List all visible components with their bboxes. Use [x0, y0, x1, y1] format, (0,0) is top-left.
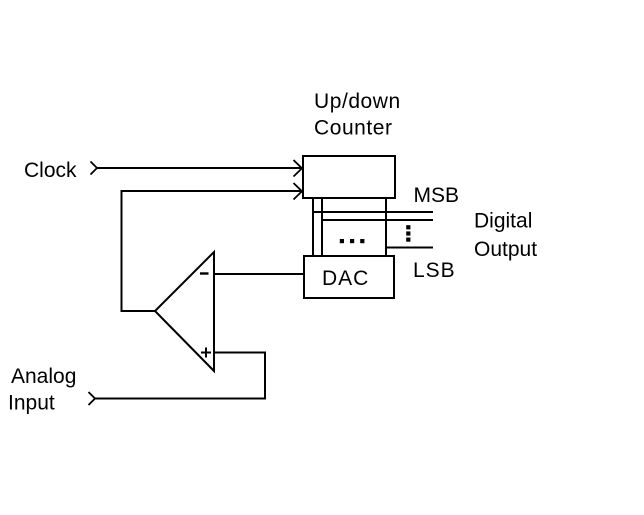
label Up/down Counter: [314, 90, 401, 140]
bus wire counter to DAC bit 2: [321, 198, 323, 256]
svg-text:DAC: DAC: [322, 267, 369, 290]
plus sign non-inverting input: [201, 348, 211, 358]
DAC box U2: [304, 256, 394, 298]
up/down counter box U1: [303, 156, 395, 198]
arrowhead feedback into counter: [294, 183, 303, 200]
label Analog Input: [8, 365, 76, 415]
wire bit-2 output: [322, 219, 433, 221]
svg-text:Up/down: Up/down: [314, 90, 401, 113]
minus sign inverting input: [200, 272, 209, 274]
svg-text:Clock: Clock: [24, 159, 77, 182]
svg-text:LSB: LSB: [413, 259, 456, 282]
svg-text:Digital: Digital: [474, 210, 532, 233]
svg-text:Output: Output: [474, 238, 537, 261]
comparator U3: [155, 252, 214, 371]
wire LSB output: [386, 247, 433, 249]
bus wire counter to DAC bit MSB: [312, 198, 314, 256]
arrowhead clock into counter: [294, 160, 303, 177]
wire comparator output feedback to counter: [122, 191, 302, 311]
svg-text:Input: Input: [8, 392, 55, 415]
wire DAC to comparator inverting input: [214, 273, 303, 275]
clock input terminal chevron: [91, 162, 98, 175]
wire MSB output: [313, 211, 433, 213]
svg-text:Counter: Counter: [314, 117, 393, 140]
wire analog input to comparator non-inverting input: [95, 353, 265, 399]
svg-text:Analog: Analog: [11, 365, 76, 388]
svg-text:MSB: MSB: [414, 184, 460, 207]
analog input terminal chevron: [89, 392, 96, 405]
vertical ellipsis dots on output lines: [406, 225, 410, 242]
ellipsis dots on bus: [340, 239, 365, 243]
wire clock to counter: [97, 167, 302, 169]
label Digital Output: [474, 210, 537, 262]
bus wire counter to DAC bit LSB: [385, 198, 387, 256]
